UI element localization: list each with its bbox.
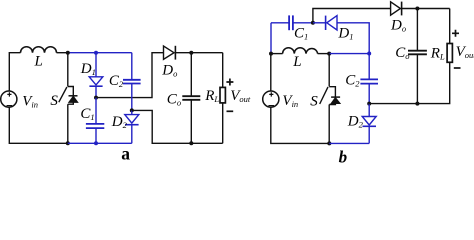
wire: RL bottom lead (a) xyxy=(222,103,224,143)
switch S (a) xyxy=(59,87,78,105)
node: switch branch junction (a) xyxy=(66,51,70,55)
svg-text:b: b xyxy=(339,148,348,165)
resistor RL (b) xyxy=(447,44,452,63)
capacitor C1 (b) xyxy=(289,15,293,30)
voltage source Vin (b) xyxy=(263,91,279,107)
svg-text:Do: Do xyxy=(390,17,406,33)
node: Vin/L junction (b) xyxy=(269,52,273,56)
node: bottom rail at Co (a) xyxy=(189,141,193,145)
node: C1/D1/riser junction (b) xyxy=(311,21,315,25)
wire: Co upper lead (b) xyxy=(416,9,418,51)
node: C2 line junction (b) xyxy=(367,52,371,56)
svg-text:Vout: Vout xyxy=(230,88,251,104)
svg-text:Do: Do xyxy=(161,62,177,78)
wire: output top bus (a) xyxy=(175,52,222,54)
wire: switch top lead (b) xyxy=(328,54,330,87)
wire: RL top lead (a) xyxy=(222,53,224,88)
wire: D2 bottom lead (a) xyxy=(131,125,133,144)
wire: switch bottom lead (a) xyxy=(67,104,69,143)
svg-text:C1: C1 xyxy=(80,106,94,122)
label + output (b) xyxy=(452,30,459,37)
wire: Co bottom lead (b) xyxy=(416,54,418,103)
diode Do (a) xyxy=(164,46,176,60)
diode Do (b) xyxy=(391,2,402,16)
wire: C2 upper segment (b) xyxy=(368,54,370,80)
node: bottom rail at switch (a) xyxy=(66,141,70,145)
node: top bus at Co (b) xyxy=(415,7,419,11)
svg-text:Co: Co xyxy=(395,45,409,61)
wire: D2 bottom lead (b) xyxy=(368,126,370,143)
svg-text:D1: D1 xyxy=(337,26,353,42)
wire: C2 to D2 junction (a) xyxy=(131,84,133,111)
wire: blue mid link to C2 (b) xyxy=(329,53,369,55)
svg-text:S: S xyxy=(50,93,58,109)
svg-text:C1: C1 xyxy=(294,26,308,42)
wire: switch top lead (a) xyxy=(67,53,69,87)
svg-text:Vout: Vout xyxy=(456,44,474,60)
capacitor C2 (a) xyxy=(123,80,141,84)
resistor RL (a) xyxy=(220,87,225,103)
diode D2 (a) xyxy=(125,110,139,124)
node: D1/C1 mid junction (a) xyxy=(94,96,98,100)
svg-text:RL: RL xyxy=(430,45,445,61)
wire: junction to D1 (b) xyxy=(313,22,326,24)
svg-text:D2: D2 xyxy=(111,114,128,130)
svg-text:Vin: Vin xyxy=(22,93,38,109)
wire: left/top input loop (a) xyxy=(9,53,68,91)
wire: C1 bottom lead (a) xyxy=(95,128,97,143)
switch S (b) xyxy=(320,87,340,105)
voltage source Vin (a) xyxy=(1,91,17,107)
wire: Co bottom lead (a) xyxy=(190,100,192,144)
wire: blue top bus (a) xyxy=(68,52,132,54)
capacitor C1 (a) xyxy=(86,124,104,128)
wire: blue bottom rail (b) xyxy=(329,142,369,144)
node: top of D1 branch (a) xyxy=(94,51,98,55)
wire: Vin bottom + bottom rail left (a) xyxy=(9,107,68,143)
label - output (a) xyxy=(227,110,234,112)
svg-text:L: L xyxy=(34,54,43,70)
wire: Vin top lead (b) xyxy=(270,54,272,92)
diode D2 (b) xyxy=(362,104,376,127)
svg-text:Vin: Vin xyxy=(282,93,298,109)
svg-text:C2: C2 xyxy=(109,73,124,89)
wire: lower mid bus to output ground (a) xyxy=(132,110,223,143)
wire: D1 to C2 corner (b) xyxy=(337,23,369,54)
wire: C2 branch upper (a) xyxy=(131,53,133,80)
node: C2/D2 junction (a) xyxy=(130,108,134,112)
wire: C1 branch (a) xyxy=(95,98,97,124)
svg-text:RL: RL xyxy=(204,88,219,104)
node: L/S junction (b) xyxy=(327,52,331,56)
inductor L (b) xyxy=(283,48,318,54)
svg-text:C2: C2 xyxy=(345,73,360,89)
wire: D1 branch upper (a) xyxy=(95,53,97,77)
wire: output ground bus (b) xyxy=(369,62,450,103)
capacitor Co (a) xyxy=(182,96,200,100)
node: bottom rail at C1 (a) xyxy=(94,141,98,145)
label + output (a) xyxy=(226,79,233,86)
node: bottom rail at switch (b) xyxy=(327,141,331,145)
wire: upper mid bus to Do (a) xyxy=(96,53,164,98)
svg-text:a: a xyxy=(121,144,130,164)
node: Co top junction (a) xyxy=(189,51,193,55)
diode D1 (a) xyxy=(89,77,103,86)
wire: L left lead (b) xyxy=(271,53,283,55)
svg-text:S: S xyxy=(310,93,318,109)
wire: C2 to D2 junction (b) xyxy=(368,84,370,104)
svg-text:L: L xyxy=(292,54,301,70)
node: C2/D2 output junction (b) xyxy=(367,102,371,106)
capacitor C2 (b) xyxy=(360,79,378,83)
wire: switch bottom lead (b) xyxy=(328,105,330,144)
wire: top bus (b) xyxy=(313,9,450,23)
wire: blue bottom rail (a) xyxy=(68,142,132,144)
svg-text:D1: D1 xyxy=(80,61,96,77)
wire: Co branch upper (a) xyxy=(190,53,192,96)
svg-text:Co: Co xyxy=(167,91,181,107)
wire: C1 left drop (b) xyxy=(270,23,272,54)
wire: RL top lead (b) xyxy=(449,9,451,44)
label - output (b) xyxy=(454,67,461,69)
diode D1 (b) xyxy=(326,16,337,30)
node: ground bus at Co (b) xyxy=(415,102,419,106)
wire: C1 wire (b) xyxy=(271,22,313,24)
inductor L (a) xyxy=(21,47,57,53)
capacitor Co (b) xyxy=(408,51,427,55)
wire: Vin bottom + rail (b) xyxy=(271,107,330,143)
wire: L right lead (b) xyxy=(318,53,330,55)
wire: D1 to mid junction (a) xyxy=(95,86,97,97)
